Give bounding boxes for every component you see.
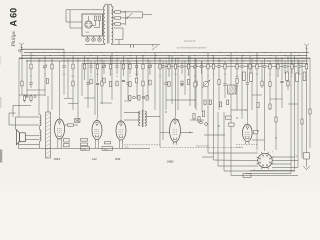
wire vertical x91 <box>90 61 92 74</box>
dashed AVC line <box>124 144 160 146</box>
smoothing resistors in box <box>94 16 96 21</box>
wire vertical x143 <box>142 56 144 111</box>
wire vertical x262 <box>261 61 263 88</box>
filter box 1 <box>81 147 90 151</box>
junction <box>94 58 95 59</box>
link wires bottom mid <box>166 100 246 135</box>
wire vertical x291 <box>290 52 292 173</box>
resistor col x31 <box>30 64 32 69</box>
heater note dashes <box>236 144 258 146</box>
junction <box>268 60 269 61</box>
junction <box>117 58 118 59</box>
svg-text:300: 300 <box>174 74 177 76</box>
wire vertical x188.5 <box>188 56 190 76</box>
wire vertical x264.5 <box>264 58 266 151</box>
junction <box>156 55 157 56</box>
rectifier tube V6 506 (socket view) <box>85 21 92 28</box>
svg-text:5000: 5000 <box>104 149 108 151</box>
capacitor col2 x31 <box>29 82 32 85</box>
junction <box>136 60 137 61</box>
rectifier unit box <box>82 14 103 36</box>
junction <box>292 60 293 61</box>
capacitor col x264.5 <box>263 65 266 68</box>
wires turning left <box>246 168 298 174</box>
junction <box>280 60 281 61</box>
RF cluster circles <box>200 116 235 126</box>
bus wire 3 (HT rail) <box>19 57 310 59</box>
wire vertical x121 <box>120 61 122 119</box>
tap resistor 1 <box>115 11 121 14</box>
svg-text:0,2: 0,2 <box>291 76 293 78</box>
junction <box>196 60 197 61</box>
wire vertical x97.5 <box>97 56 99 118</box>
svg-text:Philips: Philips <box>11 31 17 47</box>
junction <box>143 55 144 56</box>
junction <box>72 51 75 54</box>
junction <box>160 60 161 61</box>
svg-text:0,1: 0,1 <box>212 74 214 76</box>
resistor col x237 <box>236 64 238 69</box>
junction <box>293 58 294 59</box>
wire transformer to bottom tap <box>114 28 123 45</box>
resistor col x306.5 <box>305 64 307 69</box>
wire vertical x169 <box>168 56 170 76</box>
junction <box>130 58 131 59</box>
junction <box>112 60 113 61</box>
resistor col2 x288 <box>287 81 289 86</box>
svg-text:0,1: 0,1 <box>44 74 46 76</box>
junction <box>219 51 222 54</box>
junction <box>21 58 22 59</box>
output choke winding <box>40 115 41 141</box>
resistor col x110.5 <box>109 64 111 69</box>
chassis wire <box>19 147 151 149</box>
junction <box>154 58 155 59</box>
wire vertical x136.5 <box>136 56 138 76</box>
svg-text:a: a <box>256 151 257 153</box>
resistor col x130 <box>129 64 131 69</box>
dashed heater run right <box>160 147 240 149</box>
transformer bottom leads <box>85 43 112 44</box>
svg-text:5000: 5000 <box>135 74 139 76</box>
mains cord <box>112 44 161 46</box>
bus wire 5 <box>82 63 308 65</box>
filter box 2 <box>102 147 113 151</box>
wire vertical x22 <box>21 49 23 95</box>
selector switch arm S1 <box>126 17 128 19</box>
junction <box>249 51 252 54</box>
junction <box>201 58 202 59</box>
junction <box>57 58 58 59</box>
wire into box <box>66 21 82 23</box>
resistor row2b x136.5 <box>135 78 137 83</box>
value box <box>243 173 251 177</box>
wire staircase to socket <box>202 153 298 176</box>
wire vertical x294.5 <box>294 56 296 171</box>
wire drop to box <box>65 10 67 22</box>
junction <box>130 51 133 54</box>
junction <box>189 51 192 54</box>
capacitor col2 x88 <box>86 82 89 85</box>
junction <box>50 55 51 56</box>
wire vertical x298 <box>297 58 299 167</box>
resistor col x188.5 <box>187 64 189 69</box>
wire vertical x196 <box>195 58 197 110</box>
wire vertical x160 <box>159 58 161 147</box>
tube cathode drops to chassis <box>58 142 123 149</box>
junction <box>174 51 177 54</box>
wire HT line above box <box>66 9 103 11</box>
resistor row2b x195 <box>194 82 196 87</box>
switch output wire <box>143 14 153 16</box>
capacitor row2b x182 <box>180 83 183 86</box>
wire vertical x64 <box>63 49 65 95</box>
junction <box>184 60 185 61</box>
junction <box>148 60 149 61</box>
junction <box>301 58 302 59</box>
tuning capacitor C-var <box>202 80 210 88</box>
wire vertical x201.5 <box>201 61 203 74</box>
loudspeaker LS <box>16 130 25 145</box>
wire vertical x185 <box>184 61 186 95</box>
junction <box>169 55 170 56</box>
wire vertical x128 <box>127 58 129 100</box>
wire vertical x59.5 <box>59 61 61 117</box>
svg-text:50: 50 <box>207 76 209 78</box>
capacitor col x219 <box>217 65 220 68</box>
resistor col x250 <box>249 64 251 69</box>
svg-text:25: 25 <box>188 74 190 76</box>
bus wire (antenna line) <box>22 48 65 50</box>
wire vertical x27 <box>26 61 28 97</box>
page background <box>0 0 320 185</box>
junction <box>257 55 258 56</box>
resistor col x175.5 <box>174 64 176 69</box>
tube V1 (output) <box>55 117 65 142</box>
capacitor col x201.5 <box>200 65 203 68</box>
resistor row2b x169 <box>168 82 170 87</box>
wire vertical x84.5 <box>84 56 86 80</box>
short link wires midband <box>27 90 131 104</box>
component under V3 <box>105 142 111 144</box>
svg-text:300: 300 <box>96 74 99 76</box>
lamp lead <box>99 36 101 38</box>
resistor col2 x182 <box>181 81 183 86</box>
junction <box>281 58 282 59</box>
wire vertical x242 <box>241 56 243 119</box>
cathode resistors V2 <box>81 139 88 146</box>
trimmer col x45 <box>43 64 47 68</box>
tube V4 (RF) <box>170 117 181 145</box>
wire vertical x270 <box>269 61 271 110</box>
resistor row2b x237 <box>236 79 238 84</box>
junction <box>212 58 213 59</box>
junction <box>208 60 209 61</box>
capacitor col x163 <box>161 65 164 68</box>
wire vertical x278 <box>277 58 279 76</box>
junction <box>257 58 258 59</box>
svg-text:Reg.: Reg. <box>125 147 129 149</box>
antenna symbol top right <box>304 44 309 53</box>
resistor col x270 <box>269 64 271 69</box>
pickup resistor W <box>304 153 310 160</box>
capacitor col x242 <box>240 65 243 68</box>
field coil top lead <box>47 96 49 112</box>
trimmer col x150 <box>148 64 152 68</box>
junction <box>299 55 300 56</box>
wire vertical x117 <box>116 58 118 74</box>
capacitor col x64 <box>62 65 65 68</box>
wire vertical x237 <box>236 58 238 110</box>
wire vertical x310 <box>309 58 311 148</box>
wire vertical x148 <box>147 58 149 98</box>
resistor col2 x102 <box>101 81 103 86</box>
svg-text:2AB2: 2AB2 <box>167 160 174 164</box>
junction <box>100 60 101 61</box>
svg-text:1NF3: 1NF3 <box>54 157 61 161</box>
wire vertical x250 <box>249 56 251 76</box>
junction <box>64 60 65 61</box>
resistor col2 x262 <box>261 81 263 86</box>
junction <box>172 60 173 61</box>
wire vertical x276 <box>275 56 277 150</box>
dial lamp L2 <box>92 38 96 42</box>
junction <box>195 55 196 56</box>
wire vertical x285 <box>284 61 286 74</box>
resistor col x278 <box>277 64 279 69</box>
resistor col2 x117 <box>116 81 118 86</box>
resistor <box>30 95 32 103</box>
wire V4 anode <box>181 131 193 133</box>
wire vertical x52 <box>51 58 53 110</box>
wire vertical x102 <box>101 58 103 104</box>
resistor x47 row2 <box>46 79 48 84</box>
mains switch S2 <box>152 45 158 50</box>
svg-text:5000: 5000 <box>71 76 75 78</box>
svg-text:100: 100 <box>63 74 66 76</box>
wire <box>18 58 20 116</box>
svg-text:0,2: 0,2 <box>129 76 131 78</box>
junction <box>84 60 85 61</box>
wire vertical x78 <box>77 58 79 122</box>
wire vertical x88 <box>87 58 89 108</box>
tall resistors right section <box>243 72 306 82</box>
bus wire 2 <box>22 55 308 57</box>
capacitor col2 x166 <box>164 82 167 85</box>
wire vertical x104 <box>103 61 105 74</box>
wire vertical x68 <box>67 58 69 98</box>
wire vertical x306.5 <box>306 52 308 152</box>
wire vertical x130 <box>129 61 131 74</box>
IF transformer connecting wires <box>124 113 160 120</box>
wire vertical x292 <box>291 61 293 74</box>
tube V5 (mixer) <box>243 122 253 144</box>
resistor col x225 <box>224 64 226 69</box>
capacitor col x136.5 <box>135 65 138 68</box>
resistor col2 x196 <box>195 81 197 86</box>
resistor col x213.5 <box>212 64 214 69</box>
capacitor col x285 <box>283 65 286 68</box>
wire vertical x137 <box>136 61 138 99</box>
capacitor col2 x128 <box>126 82 129 85</box>
resistor col x169 <box>168 64 170 69</box>
wire vertical x178 <box>177 58 179 110</box>
svg-text:50: 50 <box>30 76 32 78</box>
resistor col x257 <box>256 64 258 69</box>
junction <box>285 55 286 56</box>
wire selector loop <box>121 12 143 18</box>
wire vertical x299 <box>298 61 300 74</box>
junction <box>243 55 244 56</box>
trimmer col x195 <box>193 64 197 68</box>
junction <box>43 51 46 54</box>
earth arrow <box>303 159 310 170</box>
wire vertical x288 <box>287 56 289 90</box>
resistor col x123.5 <box>122 64 124 69</box>
junction <box>142 58 143 59</box>
resistor col x143 <box>142 64 144 69</box>
junction <box>62 55 63 56</box>
wire <box>12 106 14 118</box>
mains plug <box>131 45 134 48</box>
resistor col x160 <box>159 64 161 69</box>
junction <box>304 60 305 61</box>
junction <box>124 60 125 61</box>
junction <box>228 55 229 56</box>
svg-text:Ansicht AF: Ansicht AF <box>184 40 196 43</box>
junction <box>245 58 246 59</box>
power transformer T1 secondary winding <box>112 6 114 43</box>
junction <box>244 60 245 61</box>
choke mid link <box>39 126 41 130</box>
tube V3 (det) <box>116 119 126 143</box>
lamp lead <box>93 36 95 38</box>
tube V2 (AF) <box>92 118 102 142</box>
field coil (hatched) <box>46 112 51 158</box>
wire <box>13 105 31 107</box>
junction <box>279 51 282 54</box>
wire to V4 grid <box>160 131 170 133</box>
resistor col x97.5 <box>96 64 98 69</box>
junction <box>105 58 106 59</box>
dial lamp L3 <box>98 38 102 42</box>
resistor col2 x143 <box>142 81 144 86</box>
svg-text:von Anschlussseite gesehen: von Anschlussseite gesehen <box>177 47 208 50</box>
transformer top wire <box>105 4 112 6</box>
beads bottom right <box>257 103 311 125</box>
svg-text:4V 0,6A: 4V 0,6A <box>236 146 243 149</box>
resistor col x73 <box>72 64 74 69</box>
junction <box>236 58 237 59</box>
svg-text:0,5: 0,5 <box>149 74 151 76</box>
svg-text:A 60: A 60 <box>9 8 19 27</box>
junction <box>40 60 41 61</box>
bus wire 1 <box>24 51 309 53</box>
junction <box>256 60 257 61</box>
bus wire 4 <box>26 60 308 62</box>
svg-text:25: 25 <box>269 74 271 76</box>
box internal wires <box>89 16 100 28</box>
electrolytic block (hatched) <box>228 85 239 94</box>
junction <box>165 58 166 59</box>
svg-text:5000: 5000 <box>235 76 239 78</box>
wire vertical x112 <box>111 52 113 100</box>
speaker wires <box>16 117 40 148</box>
junction <box>87 51 90 54</box>
trimmer circles <box>26 95 28 97</box>
capacitor row2b x225 <box>223 83 226 86</box>
junction <box>57 51 60 54</box>
junction <box>269 58 270 59</box>
junction <box>177 58 178 59</box>
tap resistor 2 <box>115 17 121 20</box>
left bracket loop <box>9 113 16 125</box>
wire vertical x163 <box>162 61 164 140</box>
wire vertical x213.5 <box>213 56 215 160</box>
junction <box>213 55 214 56</box>
socket right wires <box>271 157 298 164</box>
resistor row2b x150 <box>149 80 151 85</box>
wire vertical x257 <box>256 52 258 150</box>
junction <box>144 51 147 54</box>
wire vertical x82 <box>81 64 83 96</box>
junction <box>305 51 308 54</box>
svg-text:g: g <box>272 151 273 153</box>
tube socket bottom view <box>256 152 273 169</box>
wire vertical x172 <box>171 56 173 104</box>
wire vertical x155 <box>154 52 156 110</box>
junction <box>182 55 183 56</box>
wire vertical x182 <box>181 61 183 74</box>
capacitor row2b x97.5 <box>96 83 99 86</box>
lamp lead <box>87 36 89 38</box>
svg-text:Reg=100 75 AB: Reg=100 75 AB <box>196 145 209 148</box>
junction <box>232 60 233 61</box>
svg-text:25: 25 <box>110 74 112 76</box>
resistor <box>23 95 25 103</box>
bus wire 6 <box>158 65 305 67</box>
resistor row2b x91 <box>90 79 92 84</box>
junction <box>72 58 73 59</box>
resistor row2b x219 <box>218 80 220 85</box>
junction <box>117 55 118 56</box>
wire link <box>19 94 45 96</box>
left page-edge smudges <box>0 150 2 163</box>
svg-text:1A2: 1A2 <box>92 157 97 161</box>
junction dots mid-bottom <box>165 111 166 112</box>
transformer core <box>107 5 109 43</box>
junction <box>87 58 88 59</box>
antenna A <box>19 43 24 50</box>
junction <box>204 51 207 54</box>
svg-text:300: 300 <box>256 74 259 76</box>
RF cluster boxes <box>204 100 229 107</box>
resistor row2b x188.5 <box>187 80 189 85</box>
wire vertical x31 <box>30 52 32 88</box>
svg-text:100: 100 <box>224 74 227 76</box>
wire vertical x175.5 <box>175 58 177 116</box>
resistor col x208 <box>207 64 209 69</box>
capacitor col x182 <box>180 65 183 68</box>
wire vertical x123.5 <box>123 56 125 76</box>
junction <box>27 60 28 61</box>
wire <box>125 11 127 25</box>
power transformer T1 primary winding <box>103 6 105 43</box>
wire vertical x166 <box>165 61 167 110</box>
grid resistor right of V1 <box>64 124 78 126</box>
junction <box>44 58 45 59</box>
wire vertical x73 <box>72 56 74 110</box>
